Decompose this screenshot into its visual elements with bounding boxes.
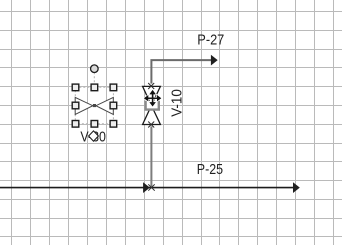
control handle diamond V-30 [89,131,99,141]
center pin V-30 [93,104,96,107]
arrowhead P-27 [211,55,218,66]
connection point bottom of V-10 [148,122,154,128]
node junction connection point x [148,184,154,190]
pipeline P-27 elbow connector [151,60,211,84]
selection handles V-30 [72,84,117,127]
rotation handle V-30 [91,65,99,73]
connection point top of V-10 [148,83,154,89]
arrowhead P-25 inlet at junction [143,182,150,193]
wire connector V-10 bottom to junction [150,126,152,187]
move cursor [144,90,161,106]
glue highlight square at V-10 center [146,101,159,110]
selection box V-30 (dashed) [75,87,113,123]
valve V-30 body (selected) [75,97,113,114]
svg-text:P-25: P-25 [197,161,223,178]
valve V-10 body [143,86,161,124]
svg-text:0: 0 [99,128,106,145]
arrowhead P-25 outlet [293,182,300,193]
pipeline P-25 [0,187,294,189]
svg-text:P-27: P-27 [197,31,224,48]
svg-text:V-10: V-10 [169,89,186,117]
rotation handle guide line V-30 [93,72,95,87]
